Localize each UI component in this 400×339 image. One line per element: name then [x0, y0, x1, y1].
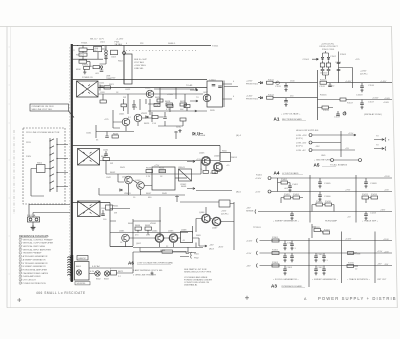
- svg-text:5: 5: [20, 253, 21, 255]
- svg-text:CRT CKT: CRT CKT: [377, 279, 387, 281]
- capacitor C661: [102, 210, 104, 214]
- wire h mid: [110, 232, 188, 234]
- svg-text:+55V: +55V: [221, 211, 227, 213]
- svg-text:R1519: R1519: [323, 110, 330, 112]
- svg-text:C1406: C1406: [324, 196, 331, 198]
- svg-text:R1302: R1302: [272, 250, 279, 252]
- svg-text:R1410: R1410: [325, 201, 332, 203]
- svg-text:+225V: +225V: [109, 78, 116, 80]
- resistor R664: [135, 227, 142, 230]
- svg-text:-15V: -15V: [246, 208, 251, 210]
- transformer T601 core (heavy vertical bar): [70, 44, 72, 282]
- svg-text:R661: R661: [113, 206, 119, 208]
- svg-text:5W: 5W: [110, 163, 113, 165]
- svg-text:+ GND RETURN +: + GND RETURN +: [314, 160, 333, 162]
- svg-text:SEE PARTS LIST FOR: SEE PARTS LIST FOR: [184, 268, 207, 271]
- svg-text:VR661: VR661: [150, 223, 157, 225]
- strip3 right additions: [110, 196, 234, 251]
- note text right 2: [184, 276, 212, 287]
- svg-text:Q664: Q664: [152, 231, 158, 233]
- svg-text:C661: C661: [101, 208, 107, 210]
- transistor Q661: [122, 234, 130, 242]
- svg-text:A TRIGGER GENERATOR: A TRIGGER GENERATOR: [23, 255, 48, 258]
- cap C1515: [329, 83, 331, 86]
- svg-text:R647: R647: [146, 193, 152, 195]
- svg-text:C1502: C1502: [330, 56, 337, 58]
- svg-text:+ TRACE ROTATION +: + TRACE ROTATION +: [347, 278, 370, 281]
- transistor Q666: [202, 214, 211, 223]
- capacitor C621: [98, 85, 104, 91]
- labels: [324, 183, 377, 198]
- svg-text:-15V: -15V: [377, 264, 382, 266]
- svg-text:Q645: Q645: [199, 153, 205, 155]
- svg-text:C1511: C1511: [275, 86, 282, 88]
- svg-text:A5: A5: [314, 163, 320, 168]
- svg-text:2N3055: 2N3055: [230, 157, 238, 159]
- svg-text:R624: R624: [132, 107, 138, 109]
- svg-text:R601 2.2: R601 2.2: [76, 55, 85, 57]
- transistor Q667: [212, 217, 221, 226]
- svg-text:Q642: Q642: [135, 180, 141, 182]
- row2 right connector: [374, 148, 384, 150]
- svg-text:TO: TO: [196, 97, 199, 99]
- amplifier box: [152, 167, 175, 190]
- wire: top primary line: [72, 45, 211, 47]
- thermal cutout box: [79, 45, 87, 53]
- plus mark left: [17, 298, 21, 302]
- svg-text:TO: TO: [376, 145, 379, 147]
- ground strip1 low: [178, 129, 181, 132]
- caps below: [365, 212, 367, 215]
- transistor Q641: [125, 176, 133, 184]
- svg-text:R642: R642: [110, 172, 116, 174]
- capacitor C1501b: [327, 67, 331, 75]
- resistor box row2: [272, 252, 279, 255]
- svg-text:(DCPL): (DCPL): [296, 138, 303, 140]
- plus mark right: [245, 296, 249, 300]
- svg-text:R626: R626: [155, 97, 161, 99]
- resistor R640: [180, 118, 186, 121]
- wire lower bus: [106, 173, 201, 175]
- svg-text:Q624: Q624: [145, 88, 151, 90]
- diode CR633: [193, 132, 195, 134]
- svg-text:TRIGGER PREAMP: TRIGGER PREAMP: [23, 252, 42, 255]
- test point TP: [174, 131, 178, 139]
- capacitor C634: [198, 132, 203, 135]
- resistor R1516: [340, 98, 346, 101]
- wires chains: [323, 51, 329, 63]
- resistor box row3: [272, 264, 279, 267]
- vertical separators: [309, 232, 375, 288]
- row1 wire: [258, 82, 318, 84]
- svg-text:Q646: Q646: [214, 156, 220, 158]
- svg-text:Z AXIS AMPLIFIER: Z AXIS AMPLIFIER: [23, 275, 41, 278]
- svg-text:LOW -15V: LOW -15V: [296, 143, 307, 145]
- contact dots: [49, 140, 57, 190]
- svg-text:R649: R649: [181, 186, 187, 188]
- svg-text:R1320: R1320: [314, 227, 321, 229]
- svg-text:Q666: Q666: [199, 212, 205, 214]
- resistor R671: [111, 271, 117, 276]
- zener VR621: [146, 116, 148, 118]
- svg-text:HORIZONTAL AMPLIFIER: HORIZONTAL AMPLIFIER: [23, 269, 48, 272]
- svg-text:+1.2KV: +1.2KV: [116, 39, 124, 41]
- svg-text:R1409: R1409: [316, 201, 323, 203]
- svg-text:4: 4: [20, 249, 21, 251]
- svg-text:R1321: R1321: [324, 229, 331, 231]
- svg-text:GRATIC: GRATIC: [78, 257, 87, 260]
- A1 label: [274, 117, 307, 122]
- svg-text:R1501 C1501: R1501 C1501: [322, 49, 335, 51]
- svg-text:C621: C621: [99, 83, 105, 85]
- svg-text:+75V SENSE: +75V SENSE: [192, 135, 206, 137]
- svg-text:R1503: R1503: [340, 54, 347, 56]
- svg-text:(E)-4: (E)-4: [236, 135, 242, 137]
- labels strip3: [101, 206, 187, 253]
- svg-text:+15V: +15V: [255, 191, 261, 193]
- diode CR1511: [260, 82, 262, 84]
- wire drops: [146, 99, 187, 115]
- svg-text:7: 7: [20, 259, 21, 261]
- fuse holder circles: [105, 46, 108, 61]
- resistor R641: [103, 158, 110, 161]
- svg-text:POWER SUPPLY + DISTRIB: POWER SUPPLY + DISTRIB: [318, 296, 397, 301]
- svg-text:Q668: Q668: [181, 230, 187, 232]
- svg-text:+100V: +100V: [383, 102, 390, 104]
- resistor R646: [159, 170, 166, 173]
- zener VR641: [120, 189, 122, 191]
- svg-text:REFERENCE DIAGRAMS: REFERENCE DIAGRAMS: [19, 235, 49, 238]
- svg-text:R1414: R1414: [371, 194, 378, 196]
- svg-text:-15V: -15V: [384, 264, 389, 266]
- svg-text:SN B250: SN B250: [77, 283, 87, 285]
- svg-text:VERTICAL OUTPUT AMPLIFIER: VERTICAL OUTPUT AMPLIFIER: [23, 242, 54, 245]
- series reg box: [207, 81, 223, 107]
- cap to gnd row1: [285, 83, 287, 86]
- svg-text:TO: TO: [376, 136, 379, 138]
- svg-text:CR641: CR641: [178, 167, 186, 169]
- svg-text:+140V: +140V: [380, 81, 387, 83]
- wire v: [106, 161, 201, 175]
- caps right column: [361, 83, 363, 103]
- svg-text:VOLTAGES AND WAVE: VOLTAGES AND WAVE: [184, 276, 208, 279]
- cap C1401: [288, 186, 292, 187]
- rectifier X-box strip2: [78, 149, 100, 166]
- wires to transformer: [31, 145, 68, 197]
- svg-text:POWER DISTRIBUTION: POWER DISTRIBUTION: [23, 283, 47, 285]
- bus wire top: [72, 145, 220, 147]
- lower parts: [318, 106, 334, 109]
- serial box: [75, 282, 90, 285]
- svg-text:TO A9: TO A9: [186, 84, 193, 87]
- labels: [76, 265, 124, 273]
- wire: dotted shield line: [126, 50, 196, 52]
- svg-text:115V LINE VOLTAGE SELECTOR: 115V LINE VOLTAGE SELECTOR: [26, 131, 60, 134]
- svg-text:C1405: C1405: [324, 183, 331, 185]
- svg-text:A: A: [304, 297, 308, 301]
- capacitor C625: [132, 100, 136, 110]
- svg-text:6.3V: 6.3V: [90, 271, 95, 273]
- bottom row texts: [273, 278, 387, 281]
- capacitor C628: [218, 86, 222, 87]
- svg-text:HIGH LOW SUPPLIES: HIGH LOW SUPPLIES: [296, 130, 319, 132]
- svg-text:+310V: +310V: [167, 94, 174, 96]
- pass transistor box: [219, 200, 230, 207]
- labels scatter strip1: [109, 78, 193, 126]
- svg-text:(DCPL): (DCPL): [221, 214, 229, 216]
- wires: [110, 219, 199, 252]
- bottom row texts: [273, 220, 379, 223]
- svg-text:A SWEEP GENERATOR: A SWEEP GENERATOR: [23, 258, 46, 261]
- svg-text:TK601: TK601: [81, 43, 88, 45]
- lamp box: [75, 262, 90, 281]
- svg-text:Q667: Q667: [212, 228, 218, 230]
- capacitor C668: [147, 233, 149, 236]
- arrow circle row1: [276, 81, 280, 85]
- svg-text:8: 8: [20, 263, 21, 265]
- A5 label: [314, 163, 337, 168]
- svg-text:2A 3AG: 2A 3AG: [115, 43, 123, 46]
- svg-text:117V: 117V: [99, 39, 104, 41]
- transistor Q624: [146, 90, 154, 98]
- wire join to row: [323, 75, 329, 79]
- right components caps: [320, 178, 366, 195]
- svg-text:R1401: R1401: [256, 175, 263, 177]
- svg-text:+110V: +110V: [384, 176, 390, 178]
- wires lower strip1: [103, 94, 152, 131]
- legend rows: [19, 238, 22, 284]
- svg-text:FROM T601: FROM T601: [246, 99, 259, 101]
- svg-text:R629: R629: [180, 101, 186, 103]
- svg-text:C1519: C1519: [334, 117, 341, 119]
- wire to right vline: [339, 68, 353, 89]
- hook labels: [194, 254, 200, 260]
- svg-text:R1402: R1402: [281, 179, 288, 181]
- svg-text:Q621: Q621: [119, 114, 125, 116]
- svg-text:+225V: +225V: [246, 81, 253, 83]
- svg-text:C641: C641: [103, 150, 109, 152]
- svg-text:Q661: Q661: [119, 231, 125, 233]
- svg-text:SEE B+ SUP: SEE B+ SUP: [134, 59, 147, 61]
- arrows: [187, 161, 195, 190]
- svg-text:R1515: R1515: [320, 79, 327, 81]
- reg box: [181, 232, 193, 243]
- resistor R621: [104, 86, 111, 89]
- wire mid bus: [98, 87, 207, 89]
- resistor R661: [106, 205, 113, 210]
- wire to connector: [196, 190, 232, 192]
- row end labels right edge: [383, 98, 391, 266]
- svg-text:VERTICAL INPUT AMPLIFIER: VERTICAL INPUT AMPLIFIER: [23, 248, 52, 251]
- svg-text:C1515: C1515: [319, 86, 326, 88]
- right small component: [347, 265, 358, 268]
- connector diamond: [122, 51, 126, 56]
- resistor R628: [166, 103, 173, 106]
- svg-text:R1517: R1517: [347, 103, 354, 105]
- connector circle: [343, 112, 346, 115]
- svg-text:SEE LINE VOLT SEL: SEE LINE VOLT SEL: [32, 109, 53, 111]
- svg-text:R1511: R1511: [268, 79, 275, 81]
- capacitor C633: [163, 112, 167, 118]
- svg-text:+140V: +140V: [345, 81, 352, 83]
- svg-text:FORMS OBTAINED UNDER: FORMS OBTAINED UNDER: [184, 278, 212, 281]
- labels: [320, 79, 379, 99]
- svg-text:-15V: -15V: [315, 146, 320, 148]
- diode CR1501: [321, 57, 323, 59]
- svg-text:-15V: -15V: [246, 265, 251, 267]
- svg-text:C1518: C1518: [356, 94, 363, 96]
- row2 wire: [258, 97, 318, 99]
- ground symbol: [31, 225, 36, 230]
- resistor R638: [184, 105, 190, 108]
- thick core segment: [70, 255, 73, 281]
- svg-text:5W: 5W: [114, 213, 117, 215]
- svg-text:FROM T601: FROM T601: [246, 84, 259, 86]
- svg-text:115V: 115V: [26, 142, 31, 144]
- svg-text:R671: R671: [118, 271, 124, 273]
- svg-text:VR622: VR622: [141, 113, 148, 115]
- vertical separators: [310, 175, 356, 223]
- svg-text:+15V: +15V: [384, 251, 389, 253]
- svg-text:-15V: -15V: [209, 245, 214, 247]
- svg-text:A6: A6: [128, 261, 134, 266]
- svg-text:R645: R645: [146, 168, 152, 170]
- svg-text:CALIBRATOR AND GATES: CALIBRATOR AND GATES: [23, 272, 49, 275]
- svg-text:+110V: +110V: [383, 239, 389, 241]
- inline fuse box on wire: [140, 248, 186, 254]
- row1 input text: [246, 81, 259, 86]
- svg-text:+15V: +15V: [377, 251, 383, 253]
- control box label: [77, 256, 88, 261]
- wires: [89, 252, 133, 274]
- svg-text:INTERFACE BOARD: INTERFACE BOARD: [282, 285, 303, 288]
- svg-text:S601: S601: [37, 163, 43, 165]
- filter box L601: [94, 47, 102, 52]
- capacitor cluster A3 row2 left: [285, 253, 292, 256]
- capacitor C601 on x106: [104, 57, 108, 60]
- svg-text:LOW VOLTAGE RECTIFIER BOARD: LOW VOLTAGE RECTIFIER BOARD: [137, 262, 174, 265]
- svg-text:13: 13: [20, 279, 22, 281]
- svg-text:+310V REG: +310V REG: [134, 65, 146, 67]
- label 2-line right: [106, 76, 111, 80]
- svg-text:C631: C631: [86, 133, 92, 135]
- svg-text:R1413: R1413: [362, 194, 369, 196]
- svg-text:R628: R628: [165, 101, 171, 103]
- svg-text:1: 1: [20, 239, 21, 241]
- mid caps row2: [316, 253, 324, 256]
- HV filter box: [124, 54, 132, 84]
- components row3: [312, 203, 334, 212]
- connector labels: [209, 245, 224, 251]
- svg-text:LOW +15V: LOW +15V: [296, 135, 307, 137]
- svg-text:CR642: CR642: [180, 184, 187, 186]
- wire: strip1 to A1 rows: [223, 84, 233, 99]
- gnd: [288, 189, 291, 192]
- resistor R1511: [267, 81, 274, 84]
- svg-text:CR1502: CR1502: [320, 73, 328, 75]
- svg-text:A4: A4: [274, 171, 280, 176]
- svg-text:DIAGRAM A1: DIAGRAM A1: [184, 284, 198, 287]
- svg-text:C1307: C1307: [317, 267, 324, 269]
- svg-text:R1301: R1301: [272, 237, 279, 239]
- svg-text:B601: B601: [76, 266, 82, 268]
- strip1 extra small parts: [121, 99, 127, 111]
- svg-text:+100V: +100V: [384, 98, 391, 100]
- svg-text:Q641: Q641: [122, 177, 128, 179]
- resistor R639: [152, 116, 158, 119]
- svg-text:+110V: +110V: [255, 178, 262, 180]
- svg-text:680K: 680K: [76, 69, 81, 71]
- svg-text:3: 3: [20, 246, 21, 248]
- svg-text:HORIZ AMP: HORIZ AMP: [325, 220, 338, 223]
- wires mid: [87, 60, 106, 67]
- pointer wire: [69, 111, 75, 118]
- svg-text:C1303: C1303: [286, 267, 293, 269]
- dash-dot guide line: [13, 130, 15, 214]
- svg-text:C1517: C1517: [368, 102, 375, 104]
- rectifier X-box strip3: [78, 201, 101, 217]
- svg-text:(FROM A2 J1050): (FROM A2 J1050): [364, 113, 382, 116]
- vline: [340, 131, 342, 157]
- transistor Q622: [134, 114, 142, 122]
- wire row2 right: [318, 99, 393, 101]
- lamp B601: [76, 270, 81, 275]
- vline main: [338, 52, 340, 83]
- wires inside strip: [128, 88, 185, 115]
- svg-text:L601: L601: [100, 41, 106, 43]
- svg-text:A1: A1: [274, 117, 280, 122]
- svg-text:GND: GND: [321, 155, 326, 157]
- diode block: [179, 169, 192, 181]
- svg-text:Q665: Q665: [168, 231, 174, 233]
- left margin ticks: [9, 47, 11, 274]
- wire: drop from top line: [123, 46, 125, 85]
- wire v right: [219, 146, 221, 161]
- svg-text:C1413: C1413: [370, 213, 377, 215]
- resistor R629: [180, 103, 187, 106]
- bottom caps: [338, 111, 345, 114]
- svg-text:+15V: +15V: [246, 253, 252, 255]
- svg-text:11: 11: [20, 273, 22, 275]
- svg-text:SEL 117: SEL 117: [90, 39, 98, 41]
- capacitor C641: [105, 151, 107, 154]
- diode CR1512: [260, 97, 262, 99]
- header text: [320, 44, 339, 51]
- svg-text:LV DIST BOARD: LV DIST BOARD: [282, 172, 299, 175]
- svg-text:6.3V AC: 6.3V AC: [92, 265, 100, 268]
- svg-text:+110V: +110V: [345, 239, 352, 241]
- wires top bus: [72, 49, 106, 59]
- svg-text:SEMICONDUCTOR TYPES: SEMICONDUCTOR TYPES: [184, 272, 212, 274]
- svg-text:+ TRACE SEP +: + TRACE SEP +: [362, 220, 379, 223]
- svg-text:+15V: +15V: [348, 133, 354, 135]
- svg-text:VOLT ADJ: VOLT ADJ: [134, 61, 144, 64]
- selector switch contacts: [50, 138, 57, 192]
- svg-text:LINE SEL: LINE SEL: [134, 68, 144, 70]
- strip2 emitter resistors: [203, 166, 218, 174]
- A3 right small box row2: [348, 252, 358, 255]
- wire top out: [110, 202, 219, 237]
- note rows under A6: [133, 269, 164, 276]
- transistor Q646: [213, 162, 222, 171]
- svg-text:+15V: +15V: [196, 159, 202, 161]
- aux box: [111, 50, 118, 55]
- transistor Q665: [169, 234, 178, 243]
- transistor Q627: [203, 94, 211, 102]
- ground under note: [150, 272, 153, 275]
- svg-text:+ FOCUS GENERATOR +: + FOCUS GENERATOR +: [273, 278, 299, 281]
- svg-text:+225V: +225V: [360, 71, 367, 73]
